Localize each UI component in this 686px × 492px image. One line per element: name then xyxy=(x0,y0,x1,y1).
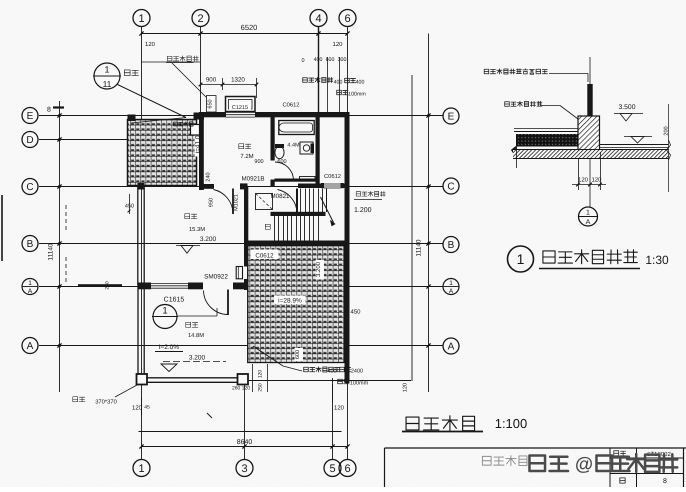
axis line 1 xyxy=(141,27,143,460)
axis line A xyxy=(39,345,443,347)
axis circle D left xyxy=(22,132,38,148)
plan title text xyxy=(406,416,475,431)
bedroom label 15.3M xyxy=(185,214,197,219)
axis circle 6 top xyxy=(339,10,356,27)
bottom edge line of plan xyxy=(248,380,412,382)
bathtub xyxy=(279,121,314,135)
dimension 650 rotated xyxy=(207,96,217,113)
section note coping xyxy=(484,69,547,74)
bottom dimension line 8640 xyxy=(139,431,342,433)
brick column leader xyxy=(115,385,137,397)
section level right xyxy=(624,136,652,138)
level 3.200 rotated on hatch xyxy=(316,260,325,280)
axis circle A right xyxy=(443,338,459,354)
tiled roof hatch top left xyxy=(128,120,197,186)
section right floor lines xyxy=(600,144,669,146)
north exterior wall on axis E xyxy=(199,112,350,117)
stairs upper flight xyxy=(300,189,302,213)
section mark circle 1/A xyxy=(579,207,598,226)
detail leader circle 1/11 xyxy=(94,63,120,89)
axis circle A left xyxy=(22,338,38,354)
axis circle 2 top xyxy=(192,10,209,27)
roof slope label i=41.0% xyxy=(195,127,205,157)
terrace corner column left xyxy=(137,374,148,385)
window C1615 in south wall xyxy=(151,282,188,289)
hole note top right xyxy=(337,90,348,95)
axis line 6 xyxy=(347,27,349,114)
axis circle C left xyxy=(22,179,38,195)
eave gutter label xyxy=(124,70,138,76)
section insulation black layer xyxy=(516,134,578,147)
bathroom south wall xyxy=(275,179,320,182)
roof vent box xyxy=(191,125,200,136)
wash basin xyxy=(300,142,313,154)
terrace corner column right xyxy=(238,374,249,385)
window C0612 in stair wall xyxy=(324,183,341,188)
window C0612 stair label xyxy=(320,171,345,180)
stair handrail xyxy=(271,212,326,216)
axis line 3 xyxy=(244,382,246,460)
roof slope label i=28.9% xyxy=(274,296,306,305)
stair break line with arrow xyxy=(321,197,334,223)
ceiling hatch dashed xyxy=(256,194,273,210)
axis circle E right xyxy=(443,108,459,124)
dimension 450 roof overhang xyxy=(129,194,131,214)
axis line 2 xyxy=(200,27,202,114)
axis circle E left xyxy=(22,108,38,124)
top right small dimension 400 600 300 xyxy=(327,57,329,112)
window C1215 bay xyxy=(226,97,256,112)
stair hall north wall on axis C with door and window xyxy=(298,184,350,189)
axis circle 1/A left xyxy=(22,279,38,295)
axis line D xyxy=(39,139,131,141)
hole note 100mm xyxy=(338,379,349,384)
title block border xyxy=(385,447,686,449)
axis line 1/A xyxy=(39,286,443,288)
access hatch note xyxy=(356,191,385,196)
bathroom east wall xyxy=(316,112,320,184)
study room label 7.2M xyxy=(239,144,251,149)
axis circle B left xyxy=(22,236,38,252)
tiny text on roof xyxy=(174,122,193,126)
ac shelf note bottom xyxy=(283,366,302,371)
top dimension line 6520 xyxy=(142,33,348,35)
door M0821 leaf xyxy=(296,189,298,215)
small marks bottom xyxy=(207,413,212,418)
thick mark on axis 1/A left xyxy=(78,284,122,287)
axis circle B right xyxy=(443,237,459,253)
axis circle 1 bottom xyxy=(133,460,150,477)
axis circle 1/A right xyxy=(443,279,459,295)
roof ridge diagonal xyxy=(131,118,186,124)
page border left edge xyxy=(1,195,3,261)
section door frame bar xyxy=(587,84,592,116)
bathroom door swing xyxy=(275,162,294,181)
axis circle 1 top xyxy=(133,10,150,27)
axis line E xyxy=(39,115,443,117)
label C0612 on hatch xyxy=(251,250,279,260)
window C0612 north label xyxy=(279,100,303,108)
axis circle 6 bottom xyxy=(339,460,356,477)
ac note top right xyxy=(303,77,333,82)
axis line 5 xyxy=(332,378,334,460)
terrace south parapet xyxy=(138,377,248,379)
study south wall with door opening M0921B xyxy=(199,184,248,189)
left dimension line 11140 xyxy=(59,101,61,392)
dimension 900 1320 xyxy=(201,84,257,86)
axis circle 5 bottom xyxy=(324,460,341,477)
bedroom south wall on axis 1/A with openings xyxy=(138,283,248,290)
detail title circle xyxy=(508,246,534,272)
leader line to roof xyxy=(118,85,187,118)
terrace detail circle 1 xyxy=(153,305,177,329)
scan noise overlay xyxy=(0,0,1,1)
study west wall on axis 2 xyxy=(199,112,204,190)
bathroom shelf xyxy=(300,177,316,182)
section curb hatched xyxy=(578,116,600,152)
title block texts xyxy=(614,451,626,456)
stair down label xyxy=(265,224,270,229)
bathroom west wall xyxy=(271,112,275,187)
section note waterproof xyxy=(505,101,542,106)
ac platform line xyxy=(142,61,201,63)
axis line B xyxy=(39,243,443,245)
axis circle 4 top xyxy=(310,10,327,27)
section detail center line xyxy=(589,57,591,207)
section dim 120 120 xyxy=(578,158,580,190)
dimension 600 rotated on hatch xyxy=(295,348,304,361)
title block grid xyxy=(609,448,611,487)
stairs lower flight xyxy=(274,216,276,241)
tiled roof hatch right (over entry) xyxy=(248,246,345,363)
terrace west parapet xyxy=(137,285,139,384)
section floor slab hatched xyxy=(513,150,669,159)
detail title text xyxy=(543,250,637,264)
stair hall south wall on axis B xyxy=(244,241,350,247)
axis line 4 xyxy=(318,27,320,114)
door SM0922 opening xyxy=(203,282,233,289)
right dimension line 11140 xyxy=(411,75,413,381)
door M1021 leaf and swing xyxy=(232,189,234,215)
bedroom west wall on axis 1 xyxy=(137,186,139,285)
section drip edge xyxy=(512,147,517,158)
axis circle C right xyxy=(443,178,459,194)
watermark xyxy=(529,455,568,471)
ac outdoor unit label top left xyxy=(167,56,198,61)
bedroom east wall on axis 3 xyxy=(244,186,248,290)
roof corner blocks xyxy=(128,115,136,122)
faint plan name in block xyxy=(482,456,527,466)
diagonal leader on hatch xyxy=(253,346,283,366)
section break line right xyxy=(667,140,671,160)
east exterior wall xyxy=(345,112,350,383)
axis circle 3 bottom xyxy=(236,460,253,477)
window C0612 bedroom east xyxy=(236,267,242,279)
axis line C xyxy=(39,186,443,188)
terrace label 14.8M xyxy=(186,322,198,327)
toilet xyxy=(275,146,284,158)
